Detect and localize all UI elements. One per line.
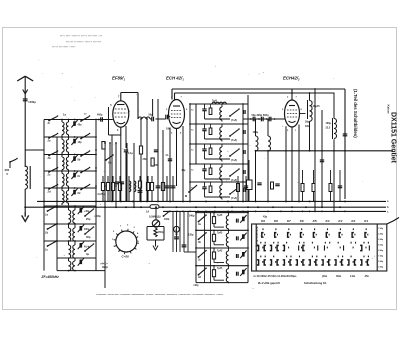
svg-text:K2: K2	[351, 219, 355, 223]
V2 pin wires	[169, 128, 171, 202]
oscillator section 3a	[196, 212, 248, 214]
filter section 1c (lower bank)	[44, 240, 96, 242]
svg-text:≈4×C=: ≈4×C=	[100, 262, 108, 266]
svg-text:30p: 30p	[86, 235, 91, 239]
svg-text:K8: K8	[274, 219, 278, 223]
svg-text:14m: 14m	[350, 274, 356, 278]
V3 pin wires	[285, 126, 287, 201]
switch antenna K	[9, 161, 11, 163]
svg-text:40a: 40a	[78, 124, 83, 127]
ground pot	[153, 243, 158, 250]
series caps 50p 300p 500p to V3 grid	[243, 118, 284, 120]
svg-text:0,5MΩ(Δ): 0,5MΩ(Δ)	[149, 215, 161, 219]
filter section 1b (lower bank)	[44, 223, 96, 225]
oscillator section 3c	[196, 247, 248, 249]
svg-text:(7+8): (7+8)	[231, 197, 237, 200]
top frame wires B+ loop	[171, 89, 173, 100]
filter section 2a : switch, transformer, trimmer	[44, 136, 96, 138]
bottom section coil L8	[57, 257, 96, 259]
svg-text:2 40p: 2 40p	[378, 233, 384, 236]
screen bypass	[124, 149, 128, 151]
svg-text:1c: 1c	[45, 247, 48, 251]
print-through ghost text top	[52, 34, 102, 49]
filter section 2r : switch, transformer, trimmer	[44, 119, 96, 121]
svg-text:45x: 45x	[365, 274, 370, 278]
svg-text:25p: 25p	[86, 217, 91, 221]
svg-text:1a: 1a	[45, 212, 48, 216]
hf coil top	[212, 102, 226, 104]
svg-text:2d: 2d	[47, 190, 51, 194]
V1 anode top wire	[121, 92, 138, 94]
oscillator coil bank rails	[204, 211, 206, 282]
antenna	[17, 76, 25, 81]
svg-text:30m: 30m	[336, 274, 342, 278]
svg-text:2b: 2b	[47, 156, 51, 160]
svg-text:32k: 32k	[305, 125, 310, 128]
osc filter section (7+8)	[190, 143, 248, 145]
svg-text:K1: K1	[364, 219, 368, 223]
filter section 2d : switch, transformer, trimmer	[44, 187, 96, 189]
svg-text:ZF=468kHz: ZF=468kHz	[41, 275, 60, 279]
V1 pin wires down	[111, 135, 113, 201]
scan speckles	[28, 60, 375, 289]
table corner curve	[387, 218, 399, 225]
svg-text:DX1151 Gentiet: DX1151 Gentiet	[390, 112, 397, 164]
oscillator section 3b	[196, 229, 248, 231]
filter section 1a (lower bank)	[44, 205, 96, 207]
svg-text:···· ···· ······· ····· ······: ···· ···· ······· ····· ········ ···	[60, 34, 102, 38]
svg-text:400p: 400p	[84, 228, 90, 231]
svg-text:7μH: 7μH	[212, 99, 217, 103]
svg-text:2 45p: 2 45p	[378, 265, 384, 268]
svg-text:50p 300p 500p: 50p 300p 500p	[252, 114, 270, 117]
bus junction dots	[43, 200, 45, 202]
svg-text:≈0,25μ: ≈0,25μ	[97, 193, 105, 196]
svg-text:400p: 400p	[97, 114, 103, 117]
svg-text:10p: 10p	[78, 141, 83, 144]
coupling coil V1->V2	[138, 117, 150, 119]
svg-text:(7+8): (7+8)	[231, 119, 237, 122]
svg-text:40m: 40m	[322, 274, 328, 278]
tube V3 ECH42/2 mixer	[285, 100, 300, 127]
svg-text:K6: K6	[300, 219, 304, 223]
svg-text:Schaltstellung: Schaltstellung	[255, 227, 259, 248]
svg-text:·——· —··— ··—— ———· ··—· —·—·: ·——· —··— ··—— ———· ··—· —·—· ——·· ·—··—…	[96, 292, 223, 297]
svg-text:7μ45: 7μ45	[217, 214, 223, 217]
svg-text:100k: 100k	[164, 218, 170, 221]
svg-text:······ ········ ······ ·······: ······ ········ ······ ·······	[66, 40, 101, 44]
svg-text:4μ: 4μ	[86, 252, 89, 256]
svg-text:7μ45: 7μ45	[217, 232, 223, 235]
svg-text:7 42p: 7 42p	[378, 227, 384, 230]
svg-text:10k: 10k	[166, 128, 171, 131]
svg-text:A: A	[175, 228, 177, 232]
mains fuse	[150, 205, 159, 209]
svg-text:2a: 2a	[47, 139, 51, 143]
RF oscillator bank (upper middle) rails	[189, 104, 191, 201]
tube V1 EF89 pentode	[113, 101, 129, 127]
svg-text:7μ45: 7μ45	[217, 267, 223, 270]
svg-text:30p: 30p	[305, 121, 310, 124]
svg-text:4 30p: 4 30p	[378, 244, 384, 247]
svg-text:(7+8): (7+8)	[231, 139, 237, 142]
svg-text:4700p: 4700p	[158, 231, 165, 234]
svg-text:ECH42/2: ECH42/2	[283, 76, 300, 82]
padder capacitors	[172, 211, 174, 252]
RC network below pot	[147, 226, 164, 228]
svg-text:2 40p: 2 40p	[378, 249, 384, 252]
svg-text:160μ: 160μ	[326, 122, 332, 125]
svg-text:(7+8): (7+8)	[231, 159, 237, 162]
svg-text:+40p: +40p	[84, 210, 90, 213]
svg-text:40μ45: 40μ45	[313, 105, 321, 108]
svg-text:K7: K7	[287, 219, 291, 223]
svg-text:ECH 42/1: ECH 42/1	[166, 76, 184, 82]
svg-text:C=50: C=50	[122, 255, 130, 259]
svg-text:42p: 42p	[263, 216, 268, 219]
contact glyph rows	[262, 228, 263, 230]
ZF filter block	[247, 180, 253, 190]
svg-text:(1.Teil des Schaltbildes): (1.Teil des Schaltbildes)	[353, 89, 358, 138]
svg-text:7μ45: 7μ45	[217, 249, 223, 252]
extra decoupling parts	[237, 184, 240, 192]
oscillator feedback coil 160u	[332, 118, 334, 139]
svg-text:1A: 1A	[146, 211, 149, 214]
svg-text:m 40-160m 25-50m 11-30m/40-60: m 40-160m 25-50m 11-30m/40-60μs	[254, 274, 298, 278]
tone switch 100k	[163, 215, 165, 217]
svg-text:30p: 30p	[182, 170, 187, 172]
svg-text:3b: 3b	[198, 241, 201, 244]
svg-text:340p: 340p	[189, 215, 195, 218]
filter section 2c : switch, transformer, trimmer	[44, 170, 96, 172]
svg-text:3d: 3d	[198, 276, 201, 279]
main bus wires a/b/c	[37, 200, 386, 202]
osc filter section (7+8)	[190, 103, 248, 105]
svg-text:2 40p: 2 40p	[378, 260, 384, 263]
decoupling parts right	[302, 170, 304, 201]
left band-filter bank rails	[43, 120, 45, 271]
svg-text:K3: K3	[338, 219, 342, 223]
svg-text:Schaltzeitung K1: Schaltzeitung K1	[304, 281, 327, 285]
svg-text:390p: 390p	[102, 265, 108, 269]
antenna coil L1	[24, 150, 26, 167]
AVC line to edge	[256, 150, 394, 152]
svg-text:25k: 25k	[143, 158, 148, 161]
decoupling strip: resistors/capacitors above bus	[102, 176, 104, 201]
switching table frame	[252, 224, 387, 271]
svg-text:Ø+V+KB geprüft: Ø+V+KB geprüft	[258, 281, 280, 285]
svg-text:p: p	[7, 172, 9, 176]
svg-text:50k: 50k	[155, 164, 160, 167]
svg-text:K9: K9	[261, 219, 265, 223]
osc filter section (7+8)	[190, 123, 248, 125]
osc filter section (7+8)	[190, 181, 248, 183]
svg-text:2c: 2c	[47, 173, 51, 177]
osc filter section (7+8)	[190, 163, 248, 165]
svg-text:EF89/1: EF89/1	[112, 76, 125, 82]
grid capacitor V2	[165, 115, 167, 120]
svg-text:≈300p: ≈300p	[28, 100, 36, 104]
svg-text:0,1μ: 0,1μ	[128, 152, 133, 155]
svg-text:≈100p: ≈100p	[94, 215, 101, 218]
svg-text:K4: K4	[326, 219, 330, 223]
svg-text:≈40p: ≈40p	[193, 284, 199, 287]
left column small parts	[102, 142, 105, 150]
svg-text:1b: 1b	[45, 230, 48, 234]
svg-text:7 42p: 7 42p	[378, 254, 384, 257]
capacitor 300p antenna	[23, 98, 28, 100]
coupling line to V1 grid	[96, 119, 113, 121]
anode load resistors	[140, 119, 142, 146]
svg-text:(7+8): (7+8)	[231, 179, 237, 182]
right verticals	[314, 89, 316, 211]
V1 side frame	[108, 107, 110, 135]
svg-text:125p: 125p	[188, 234, 194, 237]
svg-text:40,4μ: 40,4μ	[84, 246, 90, 249]
headphone jack	[174, 226, 180, 232]
tube V2 ECH42/1 triode-hexode	[169, 100, 185, 129]
svg-text:····· ········ ·····: ····· ········ ·····	[52, 45, 76, 49]
oscillator section 3d	[196, 265, 248, 267]
band switch contact below V2	[188, 191, 190, 193]
svg-text:K5: K5	[313, 219, 317, 223]
tuning dial scale	[116, 231, 137, 252]
ground antenna	[22, 212, 29, 221]
filter section 2b : switch, transformer, trimmer	[44, 154, 96, 156]
svg-text:2 45p: 2 45p	[378, 238, 384, 241]
svg-text:22,5: 22,5	[326, 126, 331, 129]
oscillator coil 40uH	[307, 100, 309, 119]
